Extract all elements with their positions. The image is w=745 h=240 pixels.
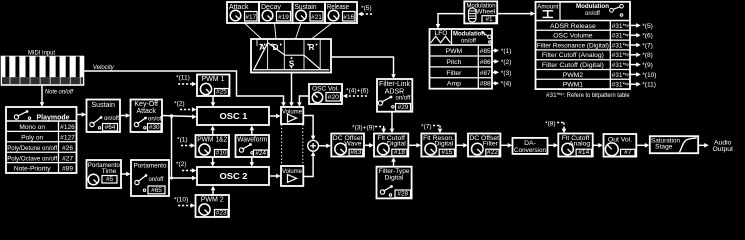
svg-text:#16: #16 bbox=[343, 14, 354, 21]
svg-text:*(4)+(6): *(4)+(6) bbox=[346, 88, 369, 95]
svg-text:Poly/Octave on/off: Poly/Octave on/off bbox=[7, 155, 57, 162]
svg-text:Filter: Filter bbox=[446, 70, 462, 77]
wire Modulation Wheel to Amount Modulation box bbox=[497, 13, 531, 15]
box Saturation Stage bbox=[650, 136, 698, 153]
switch icon Portamento bbox=[135, 174, 148, 191]
wire Volume 2 to summing node bbox=[303, 155, 313, 177]
switch icon Playmode bbox=[14, 110, 30, 119]
svg-text:ADSR: ADSR bbox=[385, 89, 404, 96]
svg-text:#5: #5 bbox=[106, 176, 114, 183]
svg-text:bp: bp bbox=[625, 71, 630, 76]
svg-text:Digital: Digital bbox=[385, 175, 404, 182]
svg-text:R: R bbox=[309, 43, 315, 52]
svg-text:Digital: Digital bbox=[434, 140, 453, 147]
switch icon Waveform bbox=[239, 143, 253, 154]
svg-text:*(4): *(4) bbox=[501, 81, 512, 88]
mod output *(9) from Amount Filter Cutoff (Digital) bbox=[630, 64, 637, 66]
value #18 bbox=[392, 149, 407, 156]
svg-text:PWM 1: PWM 1 bbox=[202, 76, 225, 83]
svg-text:Note-Priority: Note-Priority bbox=[14, 166, 51, 173]
svg-text:#31*: #31* bbox=[612, 62, 626, 69]
knob Release bbox=[328, 10, 339, 21]
svg-text:Wave: Wave bbox=[344, 140, 361, 147]
knob Out Vol. bbox=[605, 143, 618, 156]
knob Flt Reson. Digital bbox=[425, 143, 437, 155]
svg-text:Poly/Detune on/off: Poly/Detune on/off bbox=[7, 145, 57, 152]
junction node keyline bbox=[170, 114, 174, 118]
svg-text:*(7): *(7) bbox=[421, 124, 432, 131]
junction node portamento merge bbox=[170, 177, 173, 180]
link dotted Volume 1 - Volume 2 left bbox=[281, 125, 283, 166]
svg-text:Waveform: Waveform bbox=[237, 137, 267, 144]
value #28 bbox=[395, 190, 411, 198]
box PWM 2 #23 bbox=[196, 195, 230, 217]
svg-text:Decay: Decay bbox=[261, 4, 281, 11]
mod output *(5) from Amount ADSR Release bbox=[630, 24, 637, 26]
mod output *(4) from LFO Amp bbox=[492, 82, 496, 84]
svg-text:Playmode: Playmode bbox=[37, 114, 70, 121]
box Flt Cutoff Digital #18 bbox=[374, 134, 408, 157]
value #17 bbox=[245, 12, 258, 22]
svg-text:OSC Vol.: OSC Vol. bbox=[312, 85, 339, 92]
knob Flt Cutoff Analog bbox=[562, 143, 574, 155]
switch icon Key-Off Attack bbox=[134, 117, 147, 129]
svg-text:#17: #17 bbox=[245, 14, 256, 21]
wire Release knob to envelope bbox=[312, 23, 333, 39]
mod output *(8) from Amount Filter Cutoff (Analog) bbox=[630, 54, 637, 56]
wire Waveform to OSC 1 bbox=[251, 129, 253, 135]
value #83 bbox=[349, 149, 363, 156]
svg-text:Pitch: Pitch bbox=[446, 59, 461, 66]
svg-text:OSC 1: OSC 1 bbox=[220, 112, 249, 121]
svg-text:Modulation: Modulation bbox=[453, 31, 485, 38]
svg-text:*(1): *(1) bbox=[177, 137, 188, 144]
box Filter-Link ADSR on/off #29 bbox=[377, 79, 412, 112]
svg-text:on/off: on/off bbox=[585, 11, 600, 17]
svg-text:bp: bp bbox=[625, 52, 630, 57]
svg-text:Filter Cutoff (Digital): Filter Cutoff (Digital) bbox=[542, 62, 604, 69]
svg-text:PWM 1&2: PWM 1&2 bbox=[197, 137, 227, 144]
svg-text:#31*: #31* bbox=[612, 72, 626, 79]
svg-text:Wheel: Wheel bbox=[476, 8, 496, 15]
ADSR envelope graphic bbox=[251, 39, 331, 73]
svg-text:Conversion: Conversion bbox=[514, 147, 546, 154]
svg-text:#31*: #31* bbox=[612, 42, 626, 49]
LFO waveform icon bbox=[431, 36, 451, 43]
svg-text:#31*: #31* bbox=[612, 52, 626, 59]
svg-text:Sustain: Sustain bbox=[295, 4, 317, 11]
knob Decay bbox=[262, 10, 273, 21]
box Attack #17 bbox=[227, 2, 259, 23]
svg-text:#27: #27 bbox=[62, 155, 73, 162]
box PWM 1 #25 bbox=[197, 75, 230, 97]
svg-text:DA-: DA- bbox=[524, 140, 536, 147]
svg-text:#7: #7 bbox=[624, 149, 632, 156]
svg-text:#21: #21 bbox=[311, 14, 322, 21]
wire velocity: keyboard to Volume 1 bbox=[84, 71, 284, 104]
wire Portamento Time to Portamento on/off bbox=[121, 173, 128, 175]
svg-text:#64: #64 bbox=[105, 124, 116, 131]
svg-text:on/off: on/off bbox=[104, 116, 119, 122]
svg-text:*(8): *(8) bbox=[545, 121, 556, 128]
svg-text:Time: Time bbox=[102, 168, 117, 175]
value #19 bbox=[277, 12, 291, 22]
box Portamento Time #5 bbox=[87, 160, 122, 188]
svg-text:Mono on: Mono on bbox=[19, 124, 45, 131]
value #24 bbox=[254, 150, 269, 157]
box OSC Vol. #20 bbox=[309, 84, 342, 104]
wire Flt Cutoff Analog to Out Vol. bbox=[593, 144, 600, 146]
fader icon Amount bbox=[543, 11, 554, 18]
box Volume 1 amplifier bbox=[281, 107, 303, 124]
svg-text:#19: #19 bbox=[278, 14, 289, 21]
box Modulation Wheel #1 bbox=[464, 1, 497, 23]
svg-text:Key-Off: Key-Off bbox=[134, 101, 158, 108]
svg-text:Stage: Stage bbox=[655, 143, 673, 150]
wire note on/off: keyboard to Playmode bbox=[41, 86, 43, 104]
box PWM 1&amp;2 #10 bbox=[196, 135, 230, 157]
svg-text:Modulation: Modulation bbox=[576, 3, 609, 10]
box Amount Modulation on/off table bbox=[536, 2, 631, 89]
wire summing node to DC Offset Wave bbox=[319, 145, 328, 147]
mod output *(11) from Amount PWM1 bbox=[630, 83, 637, 85]
svg-text:*(7): *(7) bbox=[642, 42, 653, 49]
knob Attack bbox=[230, 10, 241, 21]
svg-text:#88: #88 bbox=[480, 81, 491, 88]
mod output *(7) from Amount Filter Resonance (Digital) bbox=[630, 44, 637, 46]
svg-text:*(9): *(9) bbox=[642, 62, 653, 69]
MIDI keyboard icon bbox=[2, 57, 84, 86]
svg-text:#30: #30 bbox=[149, 124, 160, 131]
svg-text:Velocity: Velocity bbox=[93, 64, 115, 71]
box Sustain #21 bbox=[293, 2, 326, 23]
value #16 bbox=[343, 12, 356, 22]
svg-text:*(3)+(9): *(3)+(9) bbox=[352, 125, 375, 132]
wire Flt Reson. to DC Offset Filter bbox=[456, 144, 465, 146]
link dotted Volume 1 - Volume 2 right bbox=[302, 125, 304, 166]
switch icon Filter-Type bbox=[380, 185, 393, 196]
knob DC Offset Wave bbox=[335, 143, 347, 155]
value #22 bbox=[486, 149, 499, 156]
svg-text:#85: #85 bbox=[480, 48, 491, 55]
wire PWM 1&amp;2 to OSC 1 bbox=[212, 129, 214, 135]
box Playmode table bbox=[6, 107, 77, 173]
wire Waveform to OSC 2 bbox=[251, 157, 253, 164]
svg-text:on/off: on/off bbox=[396, 96, 411, 102]
svg-text:*(8): *(8) bbox=[642, 52, 653, 59]
svg-text:*(1): *(1) bbox=[501, 48, 512, 55]
box DC Offset Filter #22 bbox=[468, 134, 500, 157]
wire Filter-Link ADSR to Flt Cutoff Digital bbox=[391, 112, 393, 130]
wire PWM 1 to OSC 1 bbox=[212, 96, 214, 104]
value #1 bbox=[482, 16, 496, 23]
svg-text:on/off: on/off bbox=[461, 38, 476, 44]
svg-text:*(5): *(5) bbox=[642, 23, 653, 30]
value #65 bbox=[148, 186, 165, 194]
svg-text:#87: #87 bbox=[480, 70, 491, 77]
svg-text:*(6): *(6) bbox=[642, 33, 653, 40]
box OSC 1 bbox=[197, 107, 269, 125]
wire envelope to Filter-Link ADSR bbox=[331, 57, 394, 76]
svg-text:Amount: Amount bbox=[537, 4, 558, 11]
svg-text:OSC 2: OSC 2 bbox=[220, 172, 249, 181]
value #10 bbox=[215, 150, 229, 157]
wire PWM 1&amp;2 to OSC 2 bbox=[212, 157, 214, 164]
wire Sustain to Key-Off Attack bbox=[120, 115, 127, 117]
wire DC Offset Wave to Flt Cutoff Digital bbox=[365, 144, 371, 146]
wire Filter-Type to Flt Cutoff Digital bbox=[393, 160, 395, 166]
svg-text:Release: Release bbox=[327, 4, 349, 11]
svg-text:*(2): *(2) bbox=[501, 59, 512, 66]
svg-text:#20: #20 bbox=[328, 94, 340, 101]
svg-text:Digital: Digital bbox=[387, 140, 406, 147]
svg-text:#24: #24 bbox=[255, 150, 266, 157]
box DC Offset Wave #83 bbox=[331, 134, 364, 157]
svg-text:bp: bp bbox=[625, 81, 630, 86]
switch icon LFO Modulation on/off bbox=[481, 31, 491, 43]
wheel icon bbox=[469, 8, 477, 22]
svg-text:*(11): *(11) bbox=[642, 82, 656, 89]
svg-text:#14: #14 bbox=[578, 149, 589, 156]
svg-text:#31*: #31* bbox=[612, 33, 626, 40]
mod output *(10) from Amount PWM2 bbox=[630, 73, 637, 75]
knob Portamento Time bbox=[88, 174, 99, 185]
svg-text:#86: #86 bbox=[480, 59, 491, 66]
svg-text:Note on/off: Note on/off bbox=[45, 89, 74, 96]
wire Attack knob to envelope bbox=[245, 23, 262, 39]
box Key-Off Attack on/off #30 bbox=[131, 100, 164, 133]
svg-text:Volume: Volume bbox=[282, 108, 302, 115]
value #23 bbox=[215, 210, 229, 217]
mod output *(6) from Amount OSC Volume bbox=[630, 34, 637, 36]
value #14 bbox=[576, 149, 591, 156]
switch icon Sustain bbox=[90, 116, 103, 129]
box Flt Cutoff Analog #14 bbox=[558, 134, 592, 157]
mod output *(3) from LFO Filter bbox=[492, 71, 496, 73]
svg-text:#65: #65 bbox=[151, 187, 162, 194]
svg-text:Portamento: Portamento bbox=[134, 162, 167, 169]
svg-text:Filter: Filter bbox=[483, 140, 499, 147]
knob PWM 1&amp;2 bbox=[199, 144, 210, 155]
wire OSC 2 to Volume 2 bbox=[269, 175, 277, 177]
wire Portamento to keyline bbox=[169, 177, 172, 179]
svg-text:#15: #15 bbox=[441, 149, 452, 156]
svg-text:#26: #26 bbox=[62, 145, 73, 152]
svg-text:Amp: Amp bbox=[447, 81, 461, 88]
svg-text:#127: #127 bbox=[60, 135, 75, 142]
box Portamento on/off #65 bbox=[131, 160, 169, 196]
svg-text:bp: bp bbox=[625, 42, 630, 47]
box Waveform #24 bbox=[236, 135, 270, 157]
svg-text:*(10): *(10) bbox=[642, 72, 656, 79]
mod output *(2) from LFO Pitch bbox=[492, 60, 496, 62]
svg-text:Sustain: Sustain bbox=[92, 102, 115, 109]
value #30 bbox=[148, 124, 162, 132]
svg-text:Filter Resonance (Digital): Filter Resonance (Digital) bbox=[537, 42, 609, 49]
svg-text:bp: bp bbox=[625, 22, 630, 27]
svg-text:#83: #83 bbox=[350, 149, 361, 156]
svg-text:*(2): *(2) bbox=[174, 101, 185, 108]
svg-text:Attack: Attack bbox=[229, 4, 249, 11]
wire DC Offset Filter to DA-Conversion bbox=[500, 144, 509, 146]
wire Volume 1 to summing node bbox=[303, 116, 313, 138]
svg-text:#126: #126 bbox=[60, 124, 75, 131]
svg-text:Poly on: Poly on bbox=[21, 135, 43, 142]
svg-text:PWM: PWM bbox=[446, 48, 463, 55]
svg-text:#22: #22 bbox=[487, 149, 498, 156]
svg-text:#29: #29 bbox=[398, 104, 409, 111]
svg-text:#89: #89 bbox=[62, 166, 73, 173]
value #64 bbox=[103, 124, 118, 132]
value #5 bbox=[102, 176, 117, 184]
svg-text:#18: #18 bbox=[394, 149, 405, 156]
wire Playmode to Sustain bbox=[77, 114, 84, 116]
svg-text:#23: #23 bbox=[216, 210, 227, 217]
knob PWM 1 bbox=[200, 83, 211, 94]
wire Saturation Stage to Audio Output bbox=[698, 144, 706, 146]
svg-text:Volume: Volume bbox=[282, 168, 302, 175]
box Volume 2 amplifier bbox=[281, 166, 303, 186]
wire Sustain knob to envelope bbox=[296, 23, 302, 39]
box Filter-Type Digital #28 bbox=[377, 167, 412, 199]
value #21 bbox=[310, 12, 323, 22]
wire Key-Off Attack to OSC 1 bbox=[162, 116, 194, 117]
svg-text:*(5): *(5) bbox=[361, 5, 372, 12]
svg-text:#31*bp: Refere to bitpattern t: #31*bp: Refere to bitpattern table bbox=[546, 91, 630, 99]
box Out Vol. #7 bbox=[604, 134, 637, 157]
knob Flt Cutoff Digital bbox=[378, 143, 390, 155]
wire DA-Conversion to Flt Cutoff Analog bbox=[548, 144, 556, 146]
summing node + bbox=[308, 140, 319, 151]
svg-text:bp: bp bbox=[625, 32, 630, 37]
knob DC Offset Filter bbox=[472, 143, 484, 155]
svg-text:*(2): *(2) bbox=[176, 161, 187, 168]
knob Sustain bbox=[296, 10, 307, 21]
wire OSC 1 to Volume 1 bbox=[269, 115, 277, 117]
wire keyline down to OSC 2 bbox=[172, 116, 194, 178]
svg-text:#28: #28 bbox=[397, 191, 408, 198]
box LFO Modulation on/off table bbox=[430, 29, 493, 89]
value #29 bbox=[396, 104, 411, 112]
box Release #16 bbox=[325, 2, 357, 23]
svg-text:PWM2: PWM2 bbox=[563, 72, 584, 79]
wire Flt Cutoff Digital to Flt Reson. Digital bbox=[408, 144, 418, 146]
box Sustain on/off #64 bbox=[87, 100, 121, 133]
svg-text:Attack: Attack bbox=[136, 108, 156, 115]
knob OSC Vol. bbox=[312, 92, 322, 102]
wire PWM 2 to OSC 2 bbox=[212, 189, 214, 196]
svg-text:OSC Volume: OSC Volume bbox=[553, 33, 593, 40]
box DA-Conversion bbox=[513, 138, 548, 154]
svg-text:*(11): *(11) bbox=[176, 75, 190, 82]
box OSC 2 bbox=[197, 167, 269, 185]
wire Modulation Wheel to LFO Modulation box bbox=[438, 14, 464, 26]
svg-text:MIDI Input: MIDI Input bbox=[28, 50, 55, 57]
svg-text:#1: #1 bbox=[485, 16, 493, 23]
svg-text:#10: #10 bbox=[216, 150, 227, 157]
box Flt Reson. Digital #15 bbox=[421, 134, 455, 157]
wire envelope to Volume 1 bbox=[291, 73, 293, 104]
svg-text:#25: #25 bbox=[216, 89, 227, 96]
wire Out Vol. to Saturation Stage bbox=[636, 144, 646, 146]
value #15 bbox=[439, 149, 454, 156]
svg-text:*(3): *(3) bbox=[501, 70, 512, 77]
svg-text:ADSR Release: ADSR Release bbox=[550, 23, 596, 30]
svg-text:bp: bp bbox=[625, 62, 630, 67]
svg-text:PWM1: PWM1 bbox=[563, 82, 584, 89]
switch icon Amount Modulation on/off bbox=[610, 4, 624, 16]
svg-text:#31*: #31* bbox=[612, 23, 626, 30]
wire OSC Vol. to Volume 1 bbox=[299, 96, 309, 104]
svg-text:Filter Cutoff (Analog): Filter Cutoff (Analog) bbox=[542, 52, 604, 59]
svg-text:on/off: on/off bbox=[149, 177, 164, 183]
mod output *(1) from LFO PWM bbox=[492, 50, 496, 52]
svg-text:on/off: on/off bbox=[148, 117, 163, 123]
svg-text:*(10): *(10) bbox=[174, 197, 188, 204]
svg-text:PWM 2: PWM 2 bbox=[201, 197, 224, 204]
box Decay #19 bbox=[259, 2, 293, 23]
value #20 bbox=[326, 93, 341, 102]
wire Decay knob to envelope bbox=[275, 23, 277, 39]
svg-text:#31*: #31* bbox=[612, 82, 626, 89]
value #25 bbox=[215, 89, 229, 96]
value #7 bbox=[621, 149, 636, 156]
switch icon Filter-Link bbox=[378, 96, 394, 108]
knob PWM 2 bbox=[199, 204, 210, 215]
svg-text:Output: Output bbox=[712, 146, 733, 153]
svg-text:Filter-Link: Filter-Link bbox=[379, 81, 410, 88]
